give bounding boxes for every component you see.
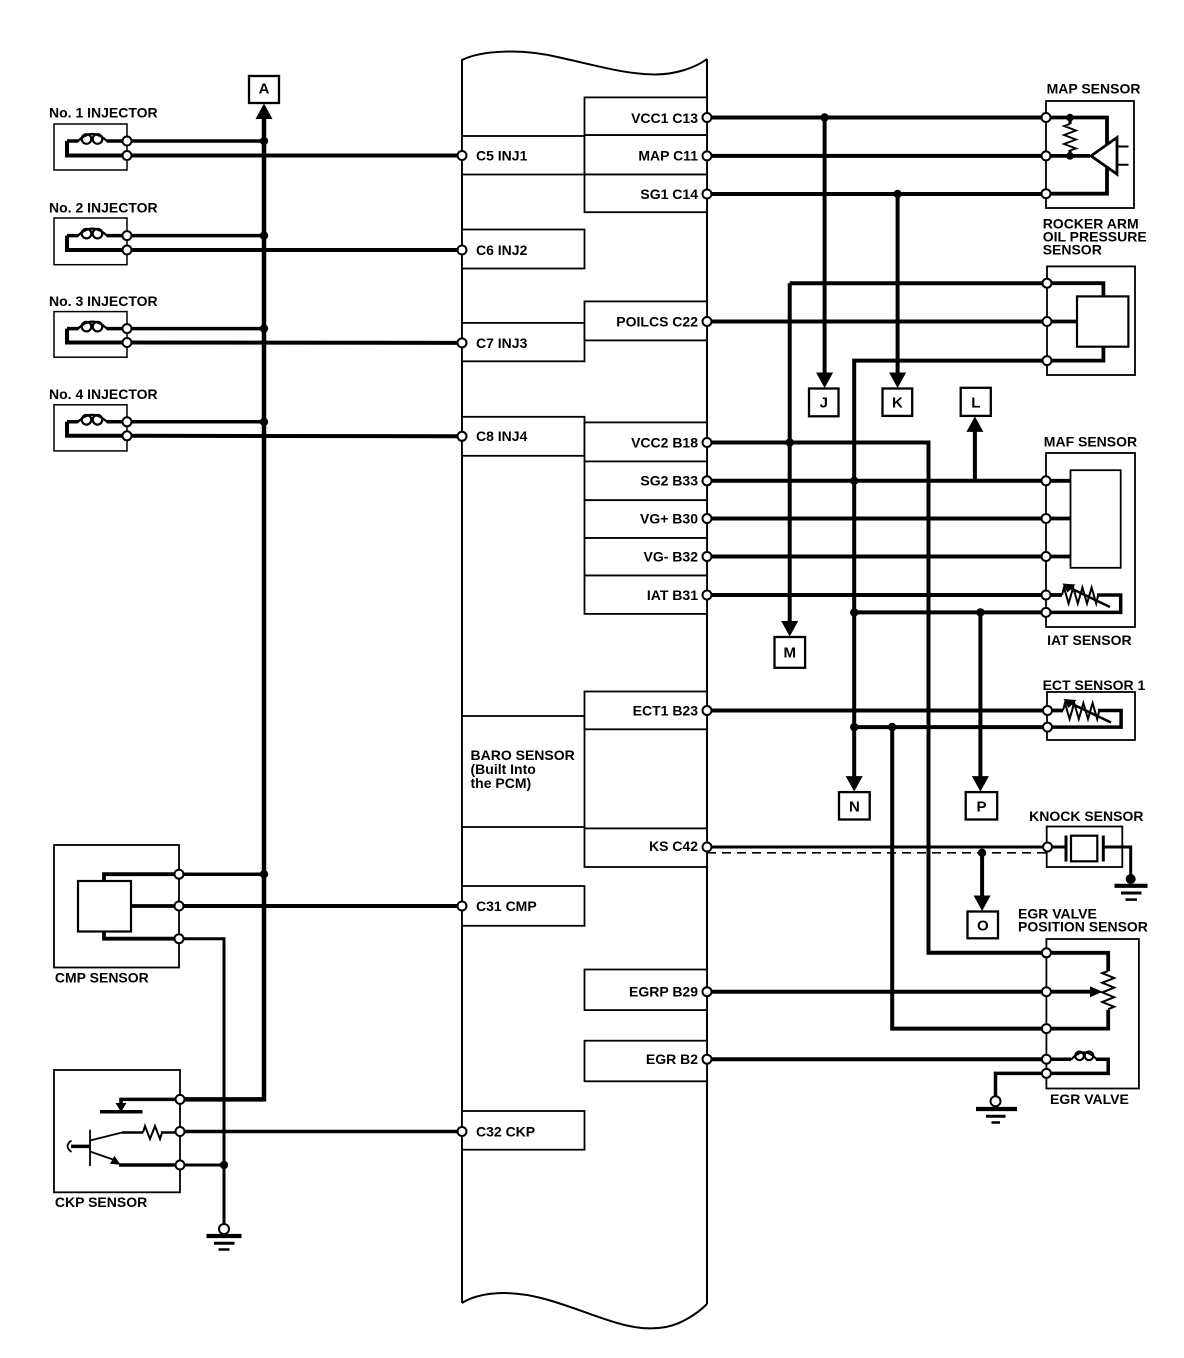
knock sensor label bbox=[1029, 808, 1143, 824]
PCM connector box VG+ B30 bbox=[585, 500, 708, 538]
wire: POILCS C22 to rocker arm oil pressure sensor bbox=[707, 320, 1047, 324]
PCM connector box C31 CMP bbox=[462, 886, 585, 926]
arrow into N (points down) bbox=[846, 776, 863, 792]
svg-text:L: L bbox=[971, 394, 980, 411]
svg-text:IAT B31: IAT B31 bbox=[647, 587, 698, 603]
pin: PCM C7 INJ3 terminal bbox=[458, 338, 467, 347]
pin: knock sensor terminal bbox=[1043, 843, 1052, 852]
PCM connector box C6 INJ2 bbox=[462, 230, 585, 269]
pin: injector2 terminal 1 bbox=[123, 231, 132, 240]
pin: PCM SG2 B33 terminal bbox=[703, 476, 712, 485]
wire: injector4 to C8 INJ4 bbox=[127, 434, 462, 439]
pin: PCM EGRP B29 terminal bbox=[703, 987, 712, 996]
MAP sensor U1 bbox=[1046, 101, 1134, 208]
svg-text:MAF SENSOR: MAF SENSOR bbox=[1044, 434, 1137, 450]
svg-text:No. 3 INJECTOR: No. 3 INJECTOR bbox=[49, 293, 158, 309]
MAF sensor bbox=[1046, 453, 1135, 627]
node: junction VCC1 / J branch bbox=[820, 113, 828, 121]
node: junction bus A / CMP terminal 1 bbox=[260, 870, 268, 878]
svg-text:MAP C11: MAP C11 bbox=[638, 148, 698, 164]
BARO sensor note box (built into PCM) bbox=[462, 716, 585, 827]
wire: CMP terminal 3 down to ground bbox=[179, 939, 224, 1225]
wire: rocker arm sensor ground to sensor-ground line / ref N bbox=[854, 361, 1047, 778]
pin: EGR position sensor ground terminal bbox=[1042, 1024, 1051, 1033]
PCM connector box MAP C11 bbox=[585, 135, 708, 174]
PCM connector box EGR B2 bbox=[585, 1041, 708, 1082]
PCM connector box VCC2 B18 bbox=[585, 422, 708, 461]
wire: injector4 hot side to bus A bbox=[127, 420, 264, 424]
connector ref J box bbox=[809, 389, 839, 417]
PCM connector box ECT1 B23 bbox=[585, 692, 708, 730]
pin: CMP sensor terminal 1 bbox=[175, 870, 184, 879]
svg-text:N: N bbox=[849, 798, 860, 815]
PCM connector box SG1 C14 bbox=[585, 175, 708, 213]
wire: bus A vertical run down to CKP sensor terminal 1 bbox=[180, 117, 264, 1099]
svg-text:MAP SENSOR: MAP SENSOR bbox=[1047, 80, 1141, 96]
pin: PCM VCC2 B18 terminal bbox=[703, 438, 712, 447]
svg-text:POSITION SENSOR: POSITION SENSOR bbox=[1018, 918, 1148, 934]
svg-text:CMP SENSOR: CMP SENSOR bbox=[55, 969, 149, 985]
op-amp buffer inside MAP sensor bbox=[1091, 138, 1129, 175]
thermistor (IAT element inside MAF) bbox=[1046, 584, 1121, 613]
pin: ECT return terminal bbox=[1043, 723, 1052, 732]
wire: injector1 to C5 INJ1 bbox=[127, 154, 462, 158]
pin: injector4 terminal 2 bbox=[123, 431, 132, 440]
pin: rocker arm sensor VCC terminal bbox=[1043, 279, 1052, 288]
wire: SG1 C14 to MAP sensor bbox=[707, 192, 1046, 196]
CMP sensor bbox=[54, 845, 179, 968]
pin: CKP sensor terminal 1 bbox=[176, 1095, 185, 1104]
svg-text:C32 CKP: C32 CKP bbox=[476, 1123, 535, 1139]
ECT sensor 1 label bbox=[1043, 677, 1146, 693]
pin: PCM VG+ B30 terminal bbox=[703, 514, 712, 523]
pin: PCM VCC1 C13 terminal bbox=[703, 113, 712, 122]
wire: IAT B31 to IAT sensor bbox=[707, 593, 1046, 597]
wire: VG- B32 to MAF sensor bbox=[707, 555, 1046, 559]
svg-text:A: A bbox=[259, 81, 270, 98]
PCM connector box IAT B31 bbox=[585, 576, 708, 614]
wire: EGRP B29 to EGR valve position sensor bbox=[707, 990, 1046, 994]
svg-text:IAT SENSOR: IAT SENSOR bbox=[1047, 632, 1132, 648]
wire: knock shield drain down to ref O bbox=[980, 853, 984, 898]
wire: VCC2 B18 over and down to EGR valve position sensor bbox=[707, 443, 1046, 953]
node: junction VCC2 / M branch bbox=[786, 438, 794, 446]
svg-text:KNOCK SENSOR: KNOCK SENSOR bbox=[1029, 808, 1143, 824]
PCM connector box EGRP B29 bbox=[585, 970, 708, 1011]
ground (knock sensor case) bbox=[1115, 874, 1148, 900]
node: junction ECT return / EGR ground branch bbox=[888, 723, 896, 731]
node: junction SG1 / K branch bbox=[893, 190, 901, 198]
arrow into O (points down) bbox=[974, 896, 991, 912]
PCM connector box C5 INJ1 bbox=[462, 136, 585, 175]
svg-text:EGRP B29: EGRP B29 bbox=[629, 984, 698, 1000]
wire: MAP C11 to MAP sensor bbox=[707, 154, 1046, 158]
wire: knock sensor shield (dashed) bbox=[707, 852, 1046, 854]
wire: VCC1 branch down to ref J bbox=[823, 118, 827, 375]
pin: PCM EGR B2 terminal bbox=[703, 1055, 712, 1064]
EGR valve label bbox=[1050, 1091, 1129, 1107]
pin: PCM IAT B31 terminal bbox=[703, 591, 712, 600]
pin: PCM C31 CMP terminal bbox=[458, 902, 467, 911]
arrow into J (points down) bbox=[816, 373, 833, 389]
arrow into L (points up) bbox=[966, 416, 983, 432]
injector No.2 (solenoid coil) bbox=[54, 218, 127, 265]
wire: injector1 hot side to bus A bbox=[127, 139, 264, 143]
wire: ECT sensor return to sensor-ground line bbox=[854, 725, 1047, 729]
connector ref M box bbox=[775, 637, 806, 668]
node: junction IAT return / P branch bbox=[976, 608, 984, 616]
pin: CKP sensor terminal 2 bbox=[176, 1127, 185, 1136]
PCM connector box VCC1 C13 bbox=[585, 97, 708, 135]
wire: ECT1 B23 to ECT sensor 1 bbox=[707, 709, 1048, 713]
wire: CKP terminal 3 to ground line bbox=[180, 1164, 224, 1167]
svg-text:the PCM): the PCM) bbox=[471, 775, 532, 791]
pin: injector4 terminal 1 bbox=[123, 417, 132, 426]
pin: injector1 terminal 1 bbox=[123, 137, 132, 146]
svg-text:ECT SENSOR 1: ECT SENSOR 1 bbox=[1043, 677, 1146, 693]
svg-text:O: O bbox=[977, 917, 989, 934]
EGR valve (solenoid coil) bbox=[1046, 1052, 1108, 1074]
svg-text:VG- B32: VG- B32 bbox=[644, 548, 699, 564]
pin: CMP sensor terminal 2 bbox=[175, 902, 184, 911]
pin: MAP sensor signal terminal bbox=[1042, 151, 1051, 160]
injector No.1 (solenoid coil) bbox=[54, 124, 127, 170]
pin: PCM ECT1 B23 terminal bbox=[703, 706, 712, 715]
pin: EGR position sensor signal terminal bbox=[1042, 987, 1051, 996]
injector No.1 label bbox=[49, 105, 158, 121]
node: junction CKP terminal 3 / ground line bbox=[220, 1161, 228, 1169]
pin: PCM VG- B32 terminal bbox=[703, 552, 712, 561]
svg-text:SG2 B33: SG2 B33 bbox=[640, 473, 698, 489]
wire: injector3 to C7 INJ3 bbox=[127, 341, 462, 345]
svg-text:No. 2 INJECTOR: No. 2 INJECTOR bbox=[49, 199, 158, 215]
pin: injector3 terminal 2 bbox=[123, 338, 132, 347]
pin: IAT signal terminal bbox=[1042, 591, 1051, 600]
wire: IAT return branch down to ref P bbox=[978, 612, 982, 778]
pin: rocker arm sensor signal terminal bbox=[1043, 317, 1052, 326]
PCM connector box POILCS C22 bbox=[585, 301, 708, 340]
connector ref K box bbox=[883, 389, 913, 416]
EGR valve position sensor (potentiometer) bbox=[1046, 939, 1139, 1089]
connector ref N box bbox=[839, 792, 870, 819]
svg-text:SENSOR: SENSOR bbox=[1043, 242, 1102, 258]
pin: PCM C8 INJ4 terminal bbox=[458, 432, 467, 441]
pin: MAP sensor ground terminal bbox=[1042, 189, 1051, 198]
pin: CMP sensor terminal 3 bbox=[175, 934, 184, 943]
svg-text:EGR VALVE: EGR VALVE bbox=[1050, 1091, 1129, 1107]
svg-text:POILCS C22: POILCS C22 bbox=[616, 313, 698, 329]
connector ref O box bbox=[968, 912, 999, 939]
pin: MAF SG2 terminal bbox=[1042, 476, 1051, 485]
svg-text:VG+ B30: VG+ B30 bbox=[640, 510, 698, 526]
ground (EGR valve) bbox=[976, 1096, 1017, 1122]
svg-text:C8 INJ4: C8 INJ4 bbox=[476, 428, 528, 444]
PCM connector box C32 CKP bbox=[462, 1111, 585, 1150]
MAP sensor label bbox=[1047, 80, 1141, 96]
pin: PCM POILCS C22 terminal bbox=[703, 317, 712, 326]
ground (CMP/CKP sensors) bbox=[207, 1224, 242, 1250]
node: bus A junction at injector 2 bbox=[260, 231, 268, 239]
pin: MAF VG- terminal bbox=[1042, 552, 1051, 561]
PCM connector box VG- B32 bbox=[585, 538, 708, 576]
injector No.3 (solenoid coil) bbox=[54, 312, 127, 358]
node: bus A junction at injector 4 bbox=[260, 418, 268, 426]
node: bus A junction at injector 1 bbox=[260, 137, 268, 145]
wire: injector2 to C6 INJ2 bbox=[127, 248, 462, 252]
svg-text:P: P bbox=[976, 798, 986, 815]
pin: MAF VG+ terminal bbox=[1042, 514, 1051, 523]
pin: CKP sensor terminal 3 bbox=[176, 1161, 185, 1170]
svg-text:ECT1 B23: ECT1 B23 bbox=[633, 702, 699, 718]
svg-text:C31 CMP: C31 CMP bbox=[476, 898, 537, 914]
injector No.2 label bbox=[49, 199, 158, 215]
wire: VCC1 C13 to MAP sensor bbox=[707, 116, 1046, 120]
EGR valve position sensor label bbox=[1018, 905, 1148, 934]
CKP sensor bbox=[54, 1070, 180, 1192]
pin: EGR valve coil terminal 2 bbox=[1042, 1069, 1051, 1078]
node: junction knock shield / O branch bbox=[978, 849, 986, 857]
node: junction SG2 / sensor-ground line bbox=[850, 477, 858, 485]
node: bus A junction at injector 3 bbox=[260, 324, 268, 332]
rocker arm oil pressure sensor label bbox=[1043, 216, 1147, 258]
injector No.3 label bbox=[49, 293, 158, 309]
MAF sensor label bbox=[1044, 434, 1137, 450]
CKP sensor label bbox=[55, 1194, 147, 1210]
pin: PCM MAP C11 terminal bbox=[703, 151, 712, 160]
node: MAP resistor top junction bbox=[1066, 114, 1074, 122]
wire: EGR valve return to ground bbox=[996, 1073, 1047, 1096]
svg-text:SG1 C14: SG1 C14 bbox=[640, 186, 698, 202]
arrow into A (points up) bbox=[256, 104, 273, 120]
wire: SG1 branch down to ref K bbox=[896, 194, 900, 374]
node: junction ECT return / sensor-ground line bbox=[850, 723, 858, 731]
svg-text:J: J bbox=[820, 395, 828, 412]
svg-text:No. 1 INJECTOR: No. 1 INJECTOR bbox=[49, 105, 158, 121]
PCM connector box KS C42 bbox=[585, 828, 708, 867]
svg-text:VCC2 B18: VCC2 B18 bbox=[631, 434, 698, 450]
wire: rocker arm sensor VCC down to ref M bbox=[788, 283, 792, 623]
IAT sensor label bbox=[1047, 632, 1132, 648]
pin: injector3 terminal 1 bbox=[123, 324, 132, 333]
node: MAP resistor bottom junction bbox=[1066, 152, 1074, 160]
wire: injector3 hot side to bus A bbox=[127, 327, 264, 331]
wire: rocker arm sensor T1 feed bbox=[790, 281, 1047, 285]
wire: CKP signal to C32 CKP bbox=[180, 1130, 462, 1134]
ECT sensor 1 (thermistor) bbox=[1047, 692, 1135, 740]
injector No.4 (solenoid coil) bbox=[54, 405, 127, 451]
wire: ECT return branch down to EGR position sensor ground bbox=[892, 727, 1046, 1029]
svg-text:No. 4 INJECTOR: No. 4 INJECTOR bbox=[49, 386, 158, 402]
pin: MAP sensor VCC terminal bbox=[1042, 113, 1051, 122]
pin: rocker arm sensor ground terminal bbox=[1043, 356, 1052, 365]
injector No.4 label bbox=[49, 386, 158, 402]
pin: PCM SG1 C14 terminal bbox=[703, 190, 712, 199]
wire: VG+ B30 to MAF sensor bbox=[707, 517, 1046, 521]
wire: injector2 hot side to bus A bbox=[127, 234, 264, 238]
svg-text:C6 INJ2: C6 INJ2 bbox=[476, 242, 528, 258]
resistor (MAP pull-up) bbox=[1064, 124, 1076, 151]
svg-text:VCC1 C13: VCC1 C13 bbox=[631, 110, 698, 126]
pin: injector2 terminal 2 bbox=[123, 246, 132, 255]
wire: CMP terminal 1 to bus A bbox=[179, 872, 264, 876]
wire: SG2 B33 to MAF sensor bbox=[707, 479, 1046, 483]
svg-text:M: M bbox=[784, 645, 797, 662]
pin: PCM KS C42 terminal bbox=[703, 843, 712, 852]
connector ref L box bbox=[961, 388, 991, 416]
connector ref A box bbox=[249, 76, 279, 103]
wire: CMP signal to C31 CMP bbox=[179, 904, 462, 908]
rocker arm oil pressure sensor bbox=[1047, 266, 1135, 375]
arrow into K (points down) bbox=[889, 373, 906, 389]
PCM body outline (torn-edge box) bbox=[462, 52, 707, 1329]
svg-text:K: K bbox=[892, 395, 903, 412]
svg-text:EGR B2: EGR B2 bbox=[646, 1051, 698, 1067]
pin: PCM C32 CKP terminal bbox=[458, 1127, 467, 1136]
pin: IAT return terminal bbox=[1042, 608, 1051, 617]
wire: ref L down to MAF sensor ground bbox=[973, 430, 977, 481]
CMP sensor label bbox=[55, 969, 149, 985]
wire: EGR B2 to EGR valve bbox=[707, 1057, 1046, 1061]
PCM connector box C7 INJ3 bbox=[462, 323, 585, 361]
pin: PCM C6 INJ2 terminal bbox=[458, 246, 467, 255]
connector ref P box bbox=[966, 792, 998, 819]
pin: ECT signal terminal bbox=[1043, 706, 1052, 715]
pin: EGR valve coil terminal 1 bbox=[1042, 1055, 1051, 1064]
svg-text:C7 INJ3: C7 INJ3 bbox=[476, 335, 528, 351]
arrow into P (points down) bbox=[972, 776, 989, 792]
svg-text:C5 INJ1: C5 INJ1 bbox=[476, 147, 528, 163]
knock sensor (piezo element) bbox=[1047, 827, 1131, 877]
svg-text:CKP SENSOR: CKP SENSOR bbox=[55, 1194, 147, 1210]
svg-text:KS C42: KS C42 bbox=[649, 838, 698, 854]
pin: PCM C5 INJ1 terminal bbox=[458, 151, 467, 160]
wire: IAT sensor return to sensor-ground line bbox=[854, 610, 1046, 614]
node: junction IAT return / sensor-ground line bbox=[850, 608, 858, 616]
PCM connector box C8 INJ4 bbox=[462, 417, 585, 456]
PCM connector box SG2 B33 bbox=[585, 461, 708, 500]
wire: KS C42 to knock sensor bbox=[707, 846, 1048, 849]
arrow into M (points down) bbox=[781, 621, 798, 637]
pin: EGR position sensor VCC terminal bbox=[1042, 948, 1051, 957]
pin: injector1 terminal 2 bbox=[123, 151, 132, 160]
